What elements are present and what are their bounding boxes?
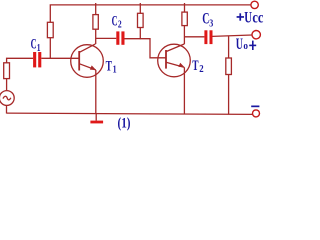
- wire: T2 collector node to C3: [184, 36, 204, 38]
- svg-text:2: 2: [199, 64, 203, 75]
- svg-text:cc: cc: [252, 7, 263, 26]
- svg-text:1: 1: [37, 43, 41, 54]
- svg-text:U: U: [244, 7, 252, 26]
- wire: RL bottom lead: [228, 75, 230, 115]
- terminal +Ucc: [251, 1, 258, 8]
- wire: source to bottom rail: [6, 105, 8, 113]
- svg-text:U: U: [236, 34, 243, 53]
- label T1: [106, 59, 117, 76]
- svg-text:C: C: [112, 14, 118, 30]
- ground bar: [90, 121, 103, 124]
- label Uo: [236, 34, 249, 53]
- label C2: [112, 14, 122, 31]
- capacitor C1: [33, 52, 41, 67]
- wire: load resistor top lead: [228, 36, 230, 58]
- transistor T2: [158, 44, 191, 77]
- terminal output minus: [253, 110, 260, 117]
- wire: bottom ground rail: [7, 113, 253, 114]
- svg-text:T: T: [192, 58, 199, 74]
- svg-text:2: 2: [118, 19, 122, 30]
- label T2: [192, 58, 203, 75]
- label C3: [202, 9, 213, 30]
- resistor R3 (stage-2 bias): [138, 3, 144, 28]
- label Ucc: [244, 7, 263, 26]
- wire: T1 emitter to ground rail: [95, 70, 97, 114]
- wire: C3 to output terminal: [213, 35, 253, 36]
- wire: R4 bottom lead / T2 collector lead: [183, 26, 185, 45]
- ground stub: [95, 113, 97, 120]
- svg-text:1: 1: [113, 64, 117, 75]
- wire: input node corner: [7, 58, 33, 63]
- wire: R3 bottom lead to T2 base wire: [139, 28, 141, 40]
- wire: T1 collector node to C2: [96, 37, 117, 39]
- svg-text:(1): (1): [118, 115, 131, 131]
- wire: C2 to T2 base (step down): [125, 39, 167, 58]
- svg-text:3: 3: [209, 17, 213, 29]
- wire: C1 to T1 base: [41, 57, 79, 59]
- terminal Uo+: [252, 31, 260, 39]
- wire: Rs to source: [6, 79, 8, 91]
- resistor R2 (stage-1 collector): [93, 3, 98, 29]
- resistor RL (load): [226, 58, 232, 75]
- resistor R1 (stage-1 bias): [47, 22, 53, 37]
- signal source (sine generator): [0, 91, 14, 106]
- capacitor C2: [116, 31, 124, 44]
- label C1: [31, 37, 41, 55]
- label minus sign: [251, 106, 259, 108]
- wire: T2 emitter to ground rail: [183, 67, 185, 114]
- resistor Rs (source internal): [4, 63, 10, 79]
- svg-text:T: T: [106, 59, 113, 75]
- capacitor C3: [204, 30, 212, 44]
- wire: R1 bottom lead to T1 base node: [49, 38, 51, 59]
- wire: R2 bottom lead / T1 collector lead: [95, 29, 97, 44]
- transistor T1: [71, 44, 104, 77]
- wire: top supply rail: [50, 5, 251, 22]
- svg-text:C: C: [31, 37, 37, 53]
- label +Ucc plus mark: [237, 13, 244, 20]
- svg-text:o: o: [243, 40, 248, 52]
- resistor R4 (stage-2 collector): [182, 3, 187, 26]
- label Uo plus mark: [249, 41, 256, 50]
